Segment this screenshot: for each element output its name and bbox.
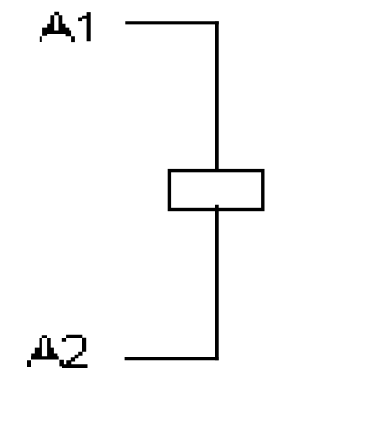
wire down to coil <box>215 21 219 171</box>
terminal label A1 <box>40 12 91 42</box>
wire from coil to A2 <box>215 205 219 360</box>
terminal label A2 <box>27 335 88 368</box>
wire to A2 <box>125 357 219 360</box>
coil <box>169 171 262 210</box>
wire from A1 <box>125 21 219 24</box>
